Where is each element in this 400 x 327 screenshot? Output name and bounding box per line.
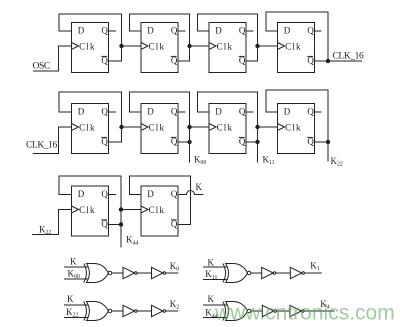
node: junction U7 qbar / K11 tap bbox=[255, 140, 259, 144]
node: junction U4 qbar / CLK_16 bbox=[326, 59, 330, 63]
wire: G1 input b bbox=[64, 278, 88, 280]
wire: U8 Q stub bbox=[315, 111, 322, 113]
D flip-flop U8 bbox=[278, 104, 315, 154]
wire: U5 Q stub bbox=[109, 111, 117, 113]
wire: U3 to U4 clk bbox=[258, 45, 278, 47]
svg-text:K: K bbox=[67, 294, 74, 304]
D flip-flop U1 bbox=[72, 23, 109, 73]
svg-text:CLK_16: CLK_16 bbox=[26, 140, 58, 150]
wire: G1 input a bbox=[64, 266, 88, 268]
node: junction U9 qbar / K44 tap bbox=[119, 222, 123, 226]
inverter N8 bbox=[290, 305, 302, 316]
wire: U5 to U6 clk bbox=[122, 126, 142, 128]
D flip-flop U3 bbox=[209, 23, 246, 73]
wire: U4 Q stub bbox=[315, 30, 322, 32]
inverter N3 bbox=[262, 267, 274, 278]
wire: U1 Q stub bbox=[109, 30, 117, 32]
wire: U3 Q stub bbox=[246, 30, 254, 32]
inverter N6 bbox=[152, 305, 164, 316]
wire: K22 input to U9 clk bbox=[32, 210, 72, 235]
wire: K22 tap down bbox=[327, 142, 329, 162]
wire: G2 input a bbox=[203, 266, 228, 268]
node: junction U1 fb / U2 clk bbox=[119, 44, 123, 48]
node: junction U7 fb / U8 clk bbox=[255, 125, 259, 129]
XNOR gate G2 bbox=[223, 264, 226, 283]
XNOR gate G3 bbox=[84, 302, 87, 321]
D flip-flop U5 bbox=[72, 104, 109, 154]
wire: U7 Qbar feedback to D bbox=[198, 92, 258, 142]
inverter N4 bbox=[290, 267, 302, 278]
wire: N5 to inverter N6 bbox=[137, 310, 151, 312]
inverter N1 bbox=[123, 267, 135, 278]
inverter N5 bbox=[123, 305, 135, 316]
D flip-flop U7 bbox=[209, 104, 246, 154]
D flip-flop U9 bbox=[72, 186, 109, 236]
wire: U4 Qbar feedback to D bbox=[266, 12, 328, 61]
wire: G2 input b bbox=[203, 279, 228, 281]
svg-text:K: K bbox=[196, 182, 203, 192]
node: junction U8 qbar / K22 tap bbox=[326, 140, 330, 144]
D flip-flop U2 bbox=[141, 23, 178, 73]
wire: K11 tap down bbox=[257, 142, 259, 163]
wire: U1 to U2 clk bbox=[122, 45, 142, 47]
wire: G2 to inverter N3 bbox=[251, 272, 262, 274]
node: junction U9 fb / U10 clk bbox=[119, 207, 123, 211]
node: junction U6 qbar / K00 tap bbox=[187, 140, 191, 144]
wire: G4 input b bbox=[203, 317, 228, 319]
wire: G1 to inverter N1 bbox=[112, 272, 123, 274]
svg-text:CLK_16: CLK_16 bbox=[333, 51, 365, 61]
wire: U7 to U8 clk bbox=[258, 126, 278, 128]
XNOR gate G1 bbox=[84, 264, 87, 283]
wire: U9 to U10 clk bbox=[121, 209, 141, 211]
D flip-flop U4 bbox=[278, 23, 315, 73]
wire: U3 Qbar feedback to D bbox=[198, 14, 258, 61]
wire: G4 to inverter N7 bbox=[251, 310, 262, 312]
node: junction U5 fb / U6 clk bbox=[119, 125, 123, 129]
wire: N3 to inverter N4 bbox=[276, 272, 291, 274]
XNOR gate G4 bbox=[223, 302, 226, 321]
inverter N2 bbox=[152, 267, 164, 278]
wire: K44 tap down bbox=[120, 225, 122, 248]
wire: N4 output K1 bbox=[304, 272, 321, 274]
wire: CLK_16 output bbox=[328, 60, 362, 62]
wire: U7 Q stub bbox=[246, 111, 254, 113]
wire: U5 Qbar feedback to D bbox=[59, 92, 122, 142]
node: junction U6 fb / U7 clk bbox=[187, 125, 191, 129]
wire: U2 Qbar feedback to D bbox=[130, 14, 190, 61]
wire: N7 to inverter N8 bbox=[276, 310, 290, 312]
wire: OSC input to U1 clk bbox=[33, 46, 72, 71]
wire: U10 Qbar feedback to D bbox=[130, 176, 191, 225]
svg-text:www.cntronics.com: www.cntronics.com bbox=[214, 302, 395, 325]
svg-text:K: K bbox=[208, 257, 215, 267]
node: junction U2 fb / U3 clk bbox=[187, 44, 191, 48]
wire: U6 Qbar feedback to D bbox=[130, 92, 190, 142]
wire: U6 Q stub bbox=[178, 111, 186, 113]
inverter N7 bbox=[262, 305, 274, 316]
wire: G4 input a bbox=[203, 304, 228, 306]
wire: U2 Q stub bbox=[178, 30, 186, 32]
svg-text:K: K bbox=[208, 294, 215, 304]
wire: U10 Q output with hop to K bbox=[178, 191, 204, 195]
wire: N6 output K2 bbox=[166, 310, 179, 312]
wire: N2 output K0 bbox=[166, 272, 179, 274]
node: junction U3 fb / U4 clk bbox=[255, 44, 259, 48]
wire: U8 Qbar feedback to D bbox=[266, 90, 328, 142]
wire: N1 to inverter N2 bbox=[137, 272, 151, 274]
wire: G3 to inverter N5 bbox=[112, 310, 123, 312]
wire: U2 to U3 clk bbox=[190, 45, 210, 47]
wire: U1 Qbar feedback to D bbox=[59, 14, 122, 61]
D flip-flop U6 bbox=[141, 104, 178, 154]
svg-text:K: K bbox=[70, 256, 77, 266]
D flip-flop U10 bbox=[141, 186, 178, 236]
wire: CLK_16 input to U5 clk bbox=[33, 127, 72, 154]
wire: K00 tap down bbox=[189, 142, 191, 163]
wire: G3 input a bbox=[64, 304, 88, 306]
svg-text:OSC: OSC bbox=[33, 62, 50, 72]
wire: U9 Q stub bbox=[109, 194, 117, 196]
wire: U9 Qbar feedback to D bbox=[59, 176, 121, 225]
wire: N8 output K4 bbox=[304, 310, 335, 312]
wire: G3 input b bbox=[64, 317, 88, 319]
wire: U6 to U7 clk bbox=[190, 126, 210, 128]
